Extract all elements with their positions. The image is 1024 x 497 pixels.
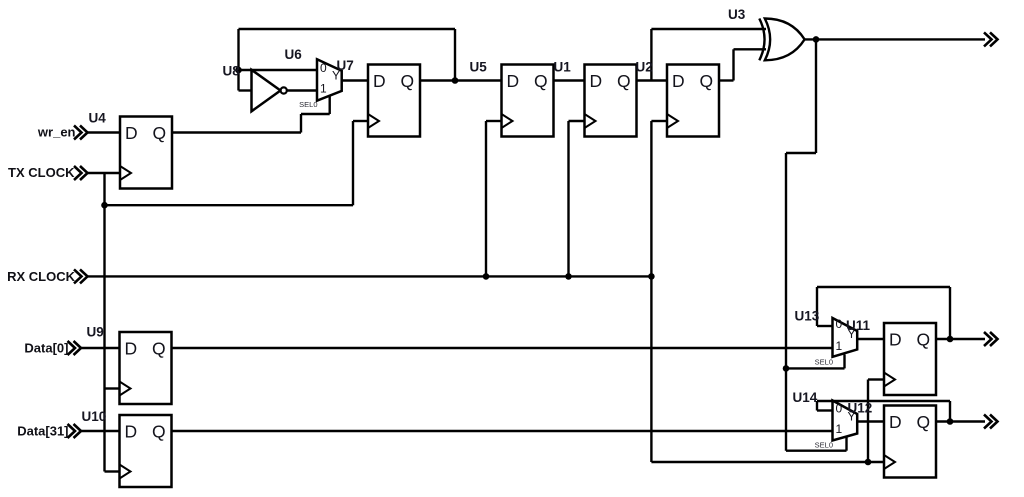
wire U1 Q to U2 D <box>637 79 668 81</box>
svg-text:U1: U1 <box>554 60 572 75</box>
svg-text:U8: U8 <box>223 64 241 79</box>
wire top feedback horizontal <box>239 28 456 30</box>
wire U14 select stub <box>845 437 847 451</box>
svg-text:1: 1 <box>836 422 843 436</box>
wire XOR bottom input vertical <box>732 49 734 80</box>
flip-flop U7 <box>368 65 420 137</box>
svg-text:0: 0 <box>836 402 843 416</box>
svg-text:U13: U13 <box>795 309 820 324</box>
input arrow Data[0] <box>68 341 82 355</box>
svg-text:Q: Q <box>153 123 167 143</box>
wire Data[0] to U9 D <box>81 347 120 349</box>
svg-text:D: D <box>889 330 902 350</box>
wire Data[31] net U10 Q to U14 input 1 <box>172 430 833 432</box>
svg-text:U9: U9 <box>87 325 104 340</box>
svg-text:1: 1 <box>320 82 327 96</box>
flip-flop U5 <box>502 65 554 137</box>
mux U14 <box>815 401 858 450</box>
wire XOR top input horizontal <box>651 28 766 30</box>
junction U11 clock branch <box>865 459 872 466</box>
svg-text:D: D <box>507 71 520 91</box>
wire TX CLOCK to U4 clock <box>88 172 121 174</box>
svg-text:TX CLOCK: TX CLOCK <box>8 165 75 180</box>
wire bottom clock horizontal <box>651 461 884 463</box>
wire U13 Y to U11 D <box>857 338 884 340</box>
wire U11 feedback vertical left <box>816 287 818 326</box>
junction U1 clock on RX <box>565 273 572 280</box>
wire U1 clock stub <box>569 120 586 122</box>
wire U5 clock stub <box>486 120 502 122</box>
wire select stub into U6 <box>329 95 331 114</box>
wire U7 clock stub <box>353 120 368 122</box>
junction U11 Q feedback <box>947 336 954 343</box>
flip-flop U12 <box>884 406 936 478</box>
wire XOR bottom input horizontal <box>734 48 767 50</box>
wire U11 Q output <box>936 338 985 340</box>
wire U11 clock stub <box>868 378 884 380</box>
wire Data[31] to U10 D <box>81 430 120 432</box>
wire U1 clock vertical <box>567 121 569 276</box>
wire XOR output <box>804 38 985 40</box>
wire U4 Q to select riser <box>172 131 302 133</box>
wire U12 Q output <box>936 420 985 422</box>
wire U12 feedback vertical right <box>949 401 951 422</box>
svg-text:D: D <box>125 339 138 359</box>
wire top feedback left vertical <box>237 29 239 91</box>
wire U5 clock vertical <box>485 121 487 276</box>
flip-flop U11 <box>884 323 936 395</box>
wire XOR feedback jog horizontal <box>786 152 816 154</box>
wire top feedback right vertical <box>454 29 456 81</box>
svg-text:D: D <box>889 412 902 432</box>
svg-text:U10: U10 <box>82 409 107 424</box>
svg-text:D: D <box>672 71 685 91</box>
input arrow RX CLOCK <box>74 269 88 283</box>
svg-text:U12: U12 <box>848 401 873 416</box>
flip-flop U4 <box>120 117 172 189</box>
svg-text:Q: Q <box>917 412 931 432</box>
input arrow Data[31] <box>68 424 82 438</box>
input arrow wr_en <box>74 126 88 140</box>
wire U5 Q to U1 D <box>554 79 586 81</box>
svg-text:SEL0: SEL0 <box>815 358 833 367</box>
wire U12 feedback top horizontal <box>817 400 950 402</box>
junction TX clock branch <box>101 202 108 209</box>
junction U7 Q feedback <box>452 77 459 84</box>
wire inverter input <box>239 89 254 91</box>
svg-text:U4: U4 <box>89 111 107 126</box>
wire XOR feedback vertical upper <box>815 39 817 153</box>
wire Data[0] net U9 Q to U13 input 1 <box>172 347 833 349</box>
junction XOR output feedback <box>813 36 820 43</box>
wire RX CLOCK horizontal <box>88 275 652 277</box>
flip-flop U1 <box>585 65 637 137</box>
wire XOR top input vertical <box>650 29 652 81</box>
wire U14 input 0 stub <box>817 409 833 411</box>
wire U14 Y to U12 D <box>857 420 884 422</box>
mux U13 <box>815 317 858 367</box>
junction inverter tap <box>235 67 242 74</box>
output arrow XOR <box>984 32 998 46</box>
wire U6 Y to U7 D <box>342 79 368 81</box>
svg-text:Q: Q <box>152 339 166 359</box>
wire U11 clock vertical <box>867 380 869 463</box>
svg-text:U3: U3 <box>728 7 746 22</box>
svg-text:Q: Q <box>917 330 931 350</box>
svg-text:Q: Q <box>617 71 631 91</box>
svg-text:SEL0: SEL0 <box>299 100 317 109</box>
wire TX clock trunk vertical <box>103 173 105 472</box>
svg-text:Q: Q <box>700 71 714 91</box>
svg-text:U11: U11 <box>846 318 871 333</box>
wire inverter output to U6 input 1 <box>287 89 318 91</box>
XOR gate U3 <box>759 19 804 61</box>
svg-text:SEL0: SEL0 <box>815 441 833 450</box>
wire U2 Q horizontal <box>719 79 734 81</box>
svg-text:D: D <box>125 123 138 143</box>
wire U14 select horizontal <box>786 450 847 452</box>
svg-text:wr_en: wr_en <box>37 125 76 140</box>
svg-text:D: D <box>125 422 138 442</box>
svg-text:1: 1 <box>836 339 843 353</box>
svg-text:RX CLOCK: RX CLOCK <box>7 269 76 284</box>
mux U6 <box>299 59 342 109</box>
svg-text:U6: U6 <box>285 47 303 62</box>
wire U13 select stub <box>843 355 845 369</box>
junction U12 Q feedback <box>947 418 954 425</box>
svg-text:U14: U14 <box>793 390 818 405</box>
junction U5 clock on RX <box>483 273 490 280</box>
svg-text:U2: U2 <box>636 60 653 75</box>
wire U13 input 0 stub <box>817 325 833 327</box>
flip-flop U2 <box>667 65 719 137</box>
svg-text:Q: Q <box>152 422 166 442</box>
svg-text:U7: U7 <box>337 58 354 73</box>
wire U7 clock vertical <box>352 121 354 205</box>
wire wr_en to U4 D <box>88 131 121 133</box>
wire U13 select horizontal <box>786 367 845 369</box>
flip-flop U9 <box>120 332 172 404</box>
wire U12 feedback vertical left <box>816 401 818 411</box>
wire select riser vertical <box>300 114 302 133</box>
output arrow U12 <box>984 415 998 429</box>
svg-text:Q: Q <box>534 71 548 91</box>
svg-text:0: 0 <box>320 61 327 75</box>
wire U10 clock stub <box>105 470 120 472</box>
svg-text:Q: Q <box>401 71 415 91</box>
svg-text:D: D <box>373 71 386 91</box>
wire XOR feedback vertical lower <box>785 153 787 451</box>
wire U2 clock stub <box>651 120 667 122</box>
svg-text:0: 0 <box>836 317 843 331</box>
junction select branch <box>783 365 790 372</box>
wire U11 feedback vertical right <box>949 287 951 339</box>
flip-flop U10 <box>120 415 172 487</box>
wire U9 clock stub <box>105 387 120 389</box>
inverter U8 <box>252 70 287 112</box>
junction U2 clock on RX <box>648 273 655 280</box>
wire U6 input 0 <box>239 69 318 71</box>
svg-text:Data[31]: Data[31] <box>17 424 68 439</box>
svg-text:D: D <box>590 71 603 91</box>
svg-text:U5: U5 <box>470 60 488 75</box>
wire U7 clock horizontal <box>105 204 354 206</box>
wire select horizontal <box>301 113 330 115</box>
wire U7 Q to U5 D <box>420 79 502 81</box>
wire U11 feedback top horizontal <box>817 286 950 288</box>
input arrow TX CLOCK <box>74 166 88 180</box>
wire U2 clock vertical <box>650 121 652 462</box>
output arrow U11 <box>984 332 998 346</box>
svg-text:Data[0]: Data[0] <box>24 341 68 356</box>
